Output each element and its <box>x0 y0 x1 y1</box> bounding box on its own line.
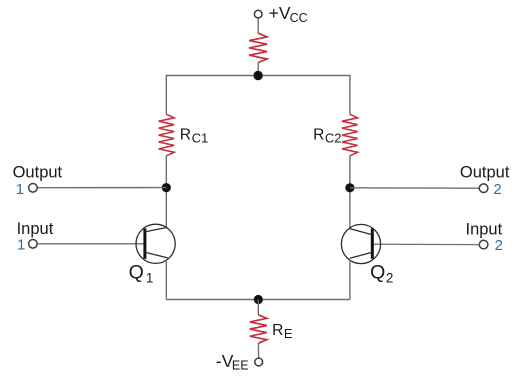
svg-text:Output: Output <box>460 163 510 181</box>
wire left branch top <box>165 75 167 115</box>
wire right branch top <box>349 75 351 115</box>
svg-text:1: 1 <box>17 237 25 254</box>
svg-text:1: 1 <box>16 181 24 198</box>
svg-text:R: R <box>180 127 191 144</box>
wire RC1 to output node <box>165 156 167 228</box>
svg-text:Q: Q <box>370 262 385 284</box>
terminal output 2 <box>479 184 488 193</box>
svg-text:R: R <box>272 322 283 339</box>
wire VCC terminal to resistor <box>257 18 259 34</box>
transistor Q1 <box>136 224 175 263</box>
wire output 2 <box>350 187 479 189</box>
wire resistor to top rail <box>257 62 259 75</box>
wire input 2 to Q2 base <box>373 243 479 245</box>
transistor Q2 <box>341 224 380 263</box>
+VCC terminal <box>254 10 262 18</box>
svg-text:E: E <box>284 326 293 341</box>
terminal input 2 <box>479 240 488 249</box>
resistor RE <box>250 315 267 344</box>
wire RE to -VEE terminal <box>257 343 259 358</box>
svg-text:2: 2 <box>493 181 501 198</box>
svg-text:EE: EE <box>232 358 249 372</box>
wire bottom rail <box>166 299 350 301</box>
svg-text:1: 1 <box>146 271 154 286</box>
wire Q2 emitter to bottom rail <box>349 260 351 300</box>
resistor (VCC supply resistor) <box>249 33 267 62</box>
resistor RC2 <box>342 114 358 156</box>
wire top rail <box>166 75 350 77</box>
svg-text:Input: Input <box>17 220 54 238</box>
wire output 1 <box>37 187 166 189</box>
terminal output 1 <box>29 184 38 193</box>
wire Q1 emitter to bottom rail <box>165 260 167 300</box>
svg-text:C1: C1 <box>192 130 209 145</box>
svg-text:2: 2 <box>386 271 394 286</box>
svg-text:CC: CC <box>290 11 308 25</box>
terminal input 1 <box>29 240 38 249</box>
svg-text:Input: Input <box>466 220 503 238</box>
svg-text:C2: C2 <box>325 130 342 145</box>
resistor RC1 <box>159 114 175 156</box>
svg-text:2: 2 <box>495 237 503 254</box>
node output 2 tap <box>345 183 354 192</box>
node output 1 tap <box>162 183 171 192</box>
node bottom rail junction <box>254 295 263 304</box>
wire RC2 to output node <box>349 156 351 228</box>
wire junction to RE <box>257 300 259 316</box>
svg-text:+V: +V <box>269 3 291 23</box>
-VEE terminal <box>255 358 263 366</box>
svg-text:Q: Q <box>129 262 144 284</box>
node top rail junction <box>253 71 262 80</box>
svg-text:R: R <box>313 127 324 144</box>
svg-text:Output: Output <box>13 164 63 182</box>
wire input 1 to Q1 base <box>37 243 144 245</box>
